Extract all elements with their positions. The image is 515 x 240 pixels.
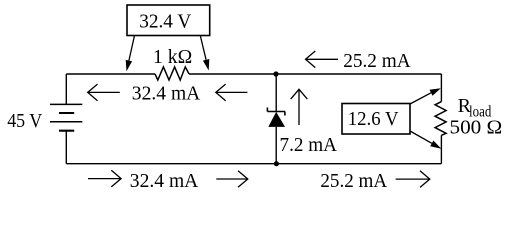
svg-text:32.4 V: 32.4 V (139, 11, 192, 33)
svg-text:12.6 V: 12.6 V (348, 108, 399, 130)
svg-text:45 V: 45 V (7, 110, 43, 132)
svg-text:25.2 mA: 25.2 mA (343, 50, 411, 72)
svg-text:500 Ω: 500 Ω (450, 116, 503, 138)
svg-text:7.2 mA: 7.2 mA (280, 134, 338, 156)
svg-text:25.2 mA: 25.2 mA (320, 170, 387, 192)
svg-text:32.4 mA: 32.4 mA (130, 170, 199, 192)
svg-text:32.4 mA: 32.4 mA (132, 82, 201, 104)
svg-text:1 kΩ: 1 kΩ (153, 46, 192, 68)
